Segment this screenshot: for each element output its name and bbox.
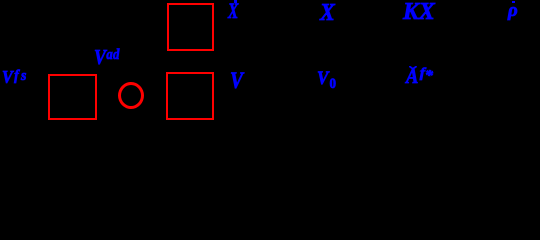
label KX	[403, 0, 435, 24]
dot of X-dot	[234, 0, 237, 2]
label X	[320, 1, 335, 25]
caron accent over A	[409, 66, 417, 70]
label V^fs	[2, 69, 29, 87]
label X-dot	[228, 0, 238, 22]
box V (bottom middle red square)	[166, 72, 214, 120]
label rho-dot	[508, 1, 518, 20]
box X-dot (top middle red square)	[167, 3, 214, 51]
label V	[230, 69, 243, 92]
label V^ad	[94, 47, 120, 68]
label V_0	[317, 69, 336, 88]
dot of rho-dot	[512, 1, 515, 4]
label A-caron^f*	[406, 66, 431, 88]
circle (red ring)	[118, 82, 144, 109]
box V^fs (left red square)	[48, 74, 97, 120]
